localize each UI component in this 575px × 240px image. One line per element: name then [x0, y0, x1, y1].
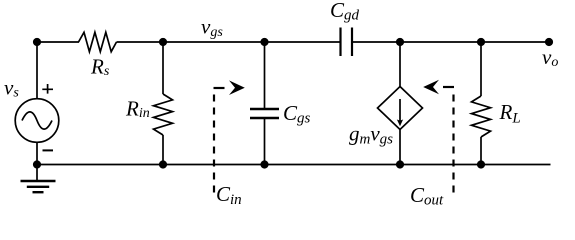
- wire from dependent source to bottom rail: [399, 130, 401, 165]
- dependent current source gm*vgs (diamond): [378, 87, 423, 130]
- svg-text:gmvgs: gmvgs: [349, 122, 393, 148]
- bottom rail (ground net): [37, 164, 551, 166]
- svg-text:vgs: vgs: [201, 15, 223, 41]
- svg-text:vs: vs: [4, 76, 19, 101]
- capacitor Cgd: [341, 28, 353, 57]
- wire from top rail to RL: [480, 42, 482, 96]
- resistor RL: [472, 96, 491, 137]
- wire from top rail to Cgs: [264, 42, 266, 109]
- node junction dependent source bottom: [396, 160, 404, 168]
- resistor Rs: [79, 32, 117, 51]
- wire top rail from Rs to Cgd left plate: [117, 41, 341, 43]
- node junction dependent source top: [396, 38, 404, 46]
- node junction Cgs top: [260, 38, 268, 46]
- resistor Rin: [154, 94, 173, 135]
- node junction Rin top: [159, 38, 167, 46]
- capacitor Cgs: [250, 109, 279, 118]
- node junction at source bottom: [33, 160, 41, 168]
- node junction RL bottom: [477, 160, 485, 168]
- svg-text:RL: RL: [499, 100, 521, 127]
- wire from top rail to dependent source: [399, 42, 401, 87]
- ground: [21, 165, 56, 193]
- svg-text:Rs: Rs: [90, 55, 110, 80]
- svg-text:Cgd: Cgd: [330, 0, 360, 24]
- svg-text:Cin: Cin: [216, 182, 242, 208]
- sine symbol inside source: [22, 112, 52, 129]
- svg-text:Rin: Rin: [125, 97, 150, 122]
- minus terminal mark of source: [43, 149, 54, 151]
- arrow inside dependent source: [397, 99, 403, 126]
- wire from Rin to bottom rail: [162, 135, 164, 165]
- wire from top rail to Rin: [162, 42, 164, 94]
- voltage source vs: [15, 99, 59, 143]
- svg-text:Cout: Cout: [410, 183, 444, 209]
- wire from top rail down to source + terminal: [36, 42, 38, 99]
- wire top rail from Cgd right plate to output: [353, 41, 550, 43]
- wire from RL to bottom rail: [480, 137, 482, 165]
- capacitor Cin dashed boundary arrow: [214, 80, 245, 196]
- node junction RL top: [477, 38, 485, 46]
- plus terminal mark of source: [42, 84, 53, 94]
- svg-text:Cgs: Cgs: [283, 101, 311, 127]
- wire top rail from source to Rs: [37, 41, 79, 43]
- node junction Cgs bottom: [260, 160, 268, 168]
- wire from source - terminal to bottom rail: [36, 142, 38, 164]
- capacitor Cout dashed boundary arrow: [423, 80, 454, 196]
- output terminal node vo: [545, 38, 553, 46]
- svg-text:vo: vo: [542, 45, 558, 70]
- node junction Rin bottom: [159, 160, 167, 168]
- node junction at source top: [33, 38, 41, 46]
- wire from Cgs to bottom rail: [264, 118, 266, 165]
